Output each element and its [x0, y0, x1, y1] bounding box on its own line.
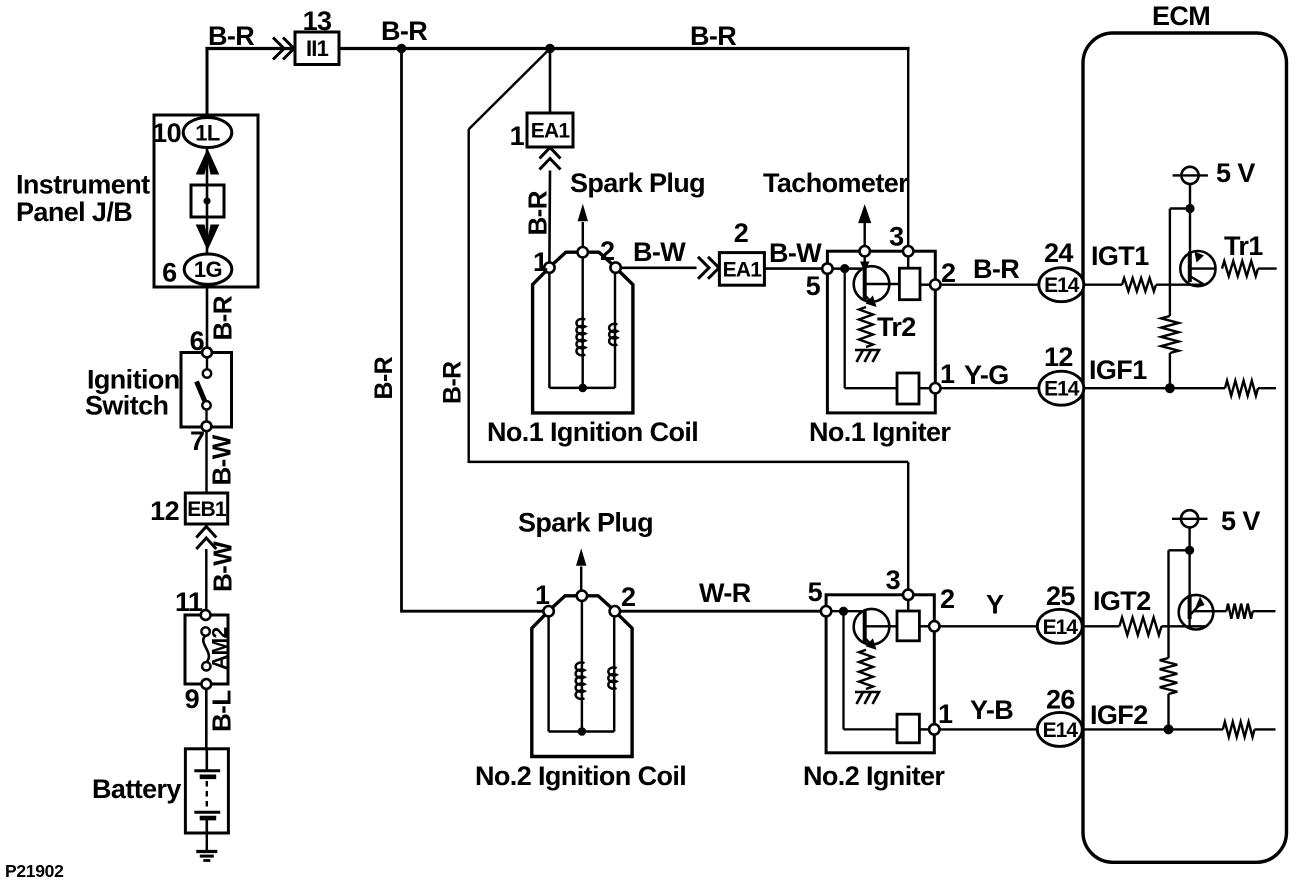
- svg-text:1: 1: [535, 580, 550, 610]
- svg-text:B-R: B-R: [208, 21, 254, 51]
- svg-text:1: 1: [938, 699, 953, 729]
- svg-text:No.2 Ignition Coil: No.2 Ignition Coil: [475, 761, 686, 791]
- svg-text:Panel J/B: Panel J/B: [16, 197, 132, 227]
- svg-text:3: 3: [886, 565, 901, 595]
- svg-text:24: 24: [1044, 238, 1073, 268]
- svg-text:B-L: B-L: [207, 690, 237, 732]
- svg-text:B-R: B-R: [439, 361, 467, 404]
- svg-text:B-W: B-W: [633, 237, 686, 267]
- svg-text:Switch: Switch: [85, 391, 168, 421]
- svg-text:1L: 1L: [195, 121, 220, 146]
- svg-text:7: 7: [190, 426, 204, 456]
- svg-text:Instrument: Instrument: [16, 170, 150, 200]
- svg-text:No.2 Igniter: No.2 Igniter: [803, 761, 945, 791]
- svg-text:E14: E14: [1043, 616, 1079, 639]
- svg-text:Battery: Battery: [92, 774, 181, 804]
- svg-text:5: 5: [808, 577, 823, 607]
- svg-text:B-R: B-R: [208, 295, 238, 340]
- svg-text:No.1 Ignition Coil: No.1 Ignition Coil: [487, 417, 698, 447]
- svg-text:IGT1: IGT1: [1091, 241, 1149, 271]
- svg-text:9: 9: [185, 684, 200, 714]
- svg-text:EA1: EA1: [531, 120, 571, 143]
- svg-text:2: 2: [600, 236, 614, 266]
- svg-text:W-R: W-R: [699, 578, 751, 608]
- svg-text:Y-B: Y-B: [970, 695, 1013, 725]
- svg-text:Y-G: Y-G: [964, 360, 1009, 390]
- svg-text:Tachometer: Tachometer: [763, 168, 909, 198]
- svg-text:EA1: EA1: [723, 258, 763, 281]
- svg-text:11: 11: [175, 587, 203, 617]
- svg-text:Y: Y: [986, 590, 1004, 620]
- svg-text:25: 25: [1046, 581, 1075, 611]
- svg-text:B-R: B-R: [690, 21, 736, 51]
- svg-text:E14: E14: [1043, 719, 1079, 742]
- svg-text:Tr2: Tr2: [877, 312, 916, 342]
- svg-text:12: 12: [150, 496, 179, 526]
- svg-text:IGF1: IGF1: [1089, 355, 1147, 385]
- svg-text:12: 12: [1044, 342, 1073, 372]
- svg-text:1: 1: [940, 359, 955, 389]
- svg-text:2: 2: [621, 582, 635, 612]
- svg-text:IGT2: IGT2: [1093, 586, 1151, 616]
- svg-text:E14: E14: [1044, 274, 1080, 297]
- svg-text:13: 13: [303, 6, 332, 36]
- svg-text:5 V: 5 V: [1221, 506, 1260, 536]
- svg-text:B-R: B-R: [523, 190, 553, 235]
- svg-text:1: 1: [510, 121, 525, 151]
- svg-text:B-W: B-W: [207, 434, 237, 485]
- svg-text:10: 10: [152, 118, 181, 148]
- svg-text:B-R: B-R: [973, 254, 1019, 284]
- svg-text:1G: 1G: [194, 257, 222, 282]
- svg-text:E14: E14: [1044, 378, 1080, 401]
- svg-text:Spark Plug: Spark Plug: [570, 168, 705, 198]
- svg-text:P21902: P21902: [5, 861, 64, 881]
- svg-text:B-R: B-R: [370, 356, 398, 399]
- svg-text:B-R: B-R: [381, 16, 427, 46]
- svg-text:EB1: EB1: [187, 498, 227, 521]
- svg-text:II1: II1: [306, 36, 329, 61]
- svg-text:3: 3: [889, 222, 904, 252]
- svg-text:IGF2: IGF2: [1090, 700, 1148, 730]
- svg-text:B-W: B-W: [208, 541, 238, 592]
- svg-text:B-W: B-W: [769, 238, 822, 268]
- svg-text:2: 2: [734, 218, 748, 248]
- svg-text:No.1 Igniter: No.1 Igniter: [809, 417, 951, 447]
- svg-text:ECM: ECM: [1152, 1, 1210, 31]
- svg-text:2: 2: [940, 584, 954, 614]
- svg-text:1: 1: [533, 247, 548, 277]
- svg-text:Tr1: Tr1: [1224, 231, 1263, 261]
- svg-text:6: 6: [162, 258, 177, 288]
- svg-text:5 V: 5 V: [1216, 158, 1255, 188]
- svg-text:Spark Plug: Spark Plug: [518, 508, 653, 538]
- svg-text:26: 26: [1046, 685, 1075, 715]
- svg-text:AM2: AM2: [209, 627, 232, 670]
- svg-text:5: 5: [806, 271, 821, 301]
